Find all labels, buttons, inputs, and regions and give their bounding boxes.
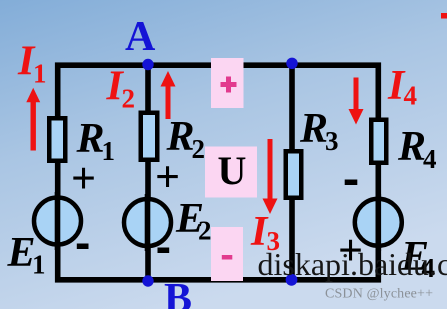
- voltage source E2: [124, 194, 171, 251]
- svg-text:CSDN @lychee++: CSDN @lychee++: [325, 287, 433, 302]
- svg-text:B: B: [164, 276, 192, 309]
- current arrow I2: [161, 71, 176, 119]
- svg-text:1: 1: [102, 136, 116, 166]
- svg-text:1: 1: [33, 59, 47, 89]
- resistor R1: [49, 118, 65, 161]
- resistor R2: [141, 113, 158, 160]
- svg-text:+: +: [71, 154, 96, 203]
- current arrow I3: [263, 139, 278, 214]
- polarity - of E2: [158, 248, 170, 254]
- current arrow I1: [26, 88, 40, 151]
- node A junction dot: [142, 59, 153, 70]
- svg-text:3: 3: [325, 126, 339, 156]
- wire: branch 2 vertical (R2/E2): [145, 65, 151, 280]
- voltage U label box: [205, 147, 257, 198]
- svg-text:4: 4: [404, 81, 418, 111]
- svg-text:+: +: [155, 153, 180, 202]
- voltage U polarity - box: [211, 227, 243, 281]
- wire: outer loop (left branch, top wire, right branch, bottom wire): [58, 65, 379, 280]
- voltage source E4: [355, 194, 402, 251]
- wire: branch 3 vertical (R3): [289, 65, 295, 280]
- svg-text:R: R: [397, 124, 426, 170]
- node B junction dot: [142, 275, 153, 286]
- voltage source E1: [34, 192, 81, 250]
- polarity - of E1: [77, 244, 89, 250]
- svg-text:U: U: [218, 148, 247, 193]
- svg-text:1: 1: [32, 250, 46, 280]
- red dash top right (cropped symbol): [441, 13, 447, 19]
- svg-text:2: 2: [122, 84, 136, 114]
- junction dot top of branch 3: [286, 58, 297, 69]
- current arrow I4: [349, 78, 364, 125]
- svg-text:A: A: [125, 14, 156, 60]
- svg-text:4: 4: [423, 144, 437, 174]
- resistor R4: [371, 120, 386, 163]
- svg-text:2: 2: [192, 134, 206, 164]
- svg-text:2: 2: [198, 216, 212, 246]
- svg-text:R: R: [299, 106, 328, 152]
- junction dot bottom of branch 3: [286, 274, 298, 286]
- polarity - of E4: [345, 180, 358, 186]
- svg-text:diskapi.baidu.co: diskapi.baidu.co: [258, 246, 447, 282]
- voltage U polarity + box: [211, 58, 244, 108]
- resistor R3: [286, 151, 302, 198]
